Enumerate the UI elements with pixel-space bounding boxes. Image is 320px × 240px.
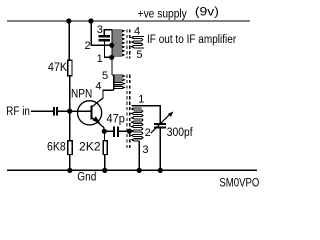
capacitor C2 47p (113, 126, 119, 137)
wire oscillator coil pin 3 to ground (138, 141, 140, 171)
transistor Q1 NPN (78, 98, 104, 131)
svg-text:NPN: NPN (71, 89, 92, 101)
node 6K8 ground junction (67, 168, 72, 173)
node 2K2 ground junction (102, 168, 107, 173)
wire emitter node to 47p (104, 131, 113, 132)
wire +V supply rail (7, 20, 250, 21)
node IFT1 pin 1 (109, 55, 114, 60)
svg-text:6K8: 6K8 (47, 142, 66, 154)
node oscillator coil tap (127, 129, 132, 134)
svg-text:2K2: 2K2 (79, 141, 101, 153)
svg-text:SM0VPO: SM0VPO (219, 175, 259, 189)
resistor R3 2K2 body (103, 141, 107, 155)
wire variable capacitor to ground (159, 129, 161, 171)
inductor oscillator coil L1 (132, 108, 143, 141)
wire capacitor to base node (58, 111, 70, 112)
capacitor C1 input coupling (53, 107, 58, 116)
inductor feedback winding pins 5-4 (112, 75, 125, 90)
svg-text:3: 3 (97, 24, 103, 36)
svg-text:47K: 47K (48, 62, 67, 74)
wire 6K8 bottom to ground (69, 155, 70, 170)
svg-text:5: 5 (136, 49, 142, 61)
wire IFT1 pin 3 to internal capacitor (104, 30, 112, 35)
svg-text:3: 3 (142, 144, 148, 156)
node variable capacitor ground junction (158, 168, 163, 173)
capacitor C3 300pf variable (151, 111, 174, 133)
svg-text:IF out to IF amplifier: IF out to IF amplifier (147, 34, 236, 46)
inductor IFT1 secondary winding IF out (132, 36, 145, 48)
svg-text:2: 2 (85, 40, 91, 52)
inductor IFT1 primary winding (112, 30, 124, 75)
node IFT1 pin 2 tap (109, 43, 114, 48)
svg-text:1: 1 (97, 53, 103, 65)
node base junction (67, 109, 72, 114)
svg-text:2: 2 (145, 127, 151, 139)
wire 47p to oscillator coil tap (119, 131, 129, 132)
wire base node to 6K8 top (69, 111, 70, 140)
wire supply rail to 47K top (69, 21, 70, 60)
wire ground rail (7, 170, 257, 172)
svg-text:RF in: RF in (6, 106, 30, 118)
wire emitter node to 2K2 top (104, 131, 105, 140)
svg-text:5: 5 (102, 70, 108, 82)
wire oscillator coil pin 1 to tuning capacitor (132, 106, 161, 123)
node oscillator coil ground junction (137, 168, 142, 173)
svg-text:300pf: 300pf (167, 127, 194, 139)
wire base node to transistor base (70, 111, 91, 112)
node emitter junction (102, 129, 107, 134)
svg-text:4: 4 (134, 25, 140, 37)
capacitor internal IFT1 (99, 35, 111, 41)
wire supply rail down to pin 2 (91, 21, 110, 45)
resistor R2 6K8 body (68, 141, 73, 155)
node supply to 47K (66, 18, 71, 23)
transformer core oscillator (127, 75, 130, 149)
svg-text:1: 1 (138, 93, 144, 105)
resistor R1 47K body (68, 60, 72, 76)
wire 47K bottom to base node (69, 77, 70, 112)
wire 2K2 bottom to ground (104, 155, 105, 170)
transformer core IFT1 (127, 30, 130, 59)
svg-text:Gnd: Gnd (77, 172, 96, 184)
svg-text:+ve supply: +ve supply (138, 9, 187, 21)
svg-text:47p: 47p (107, 113, 125, 125)
wire internal capacitor to pin 1 (104, 41, 110, 57)
wire RF input to coupling capacitor (31, 111, 53, 112)
svg-text:4: 4 (95, 81, 101, 93)
svg-text:(9v): (9v) (195, 7, 219, 19)
wire feedback winding pin 4 to collector (103, 90, 114, 98)
node supply to IFT1 pin 2 (88, 18, 93, 23)
